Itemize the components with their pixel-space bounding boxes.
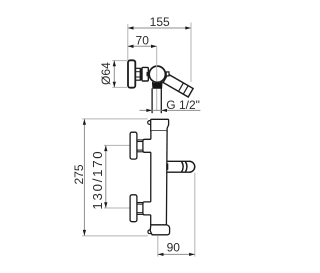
top cap — [151, 119, 169, 131]
handle knob circle — [149, 66, 165, 82]
dimension 90 line — [158, 253, 195, 255]
column left edge — [150, 131, 152, 225]
dimension 275 line — [83, 119, 85, 236]
outlet pipe — [152, 88, 161, 113]
dimension 130/170 arrows — [104, 145, 107, 208]
extension line bottom of body (275 dim) — [82, 235, 148, 237]
dimension G 1/2 line — [140, 109, 201, 111]
bottom cap top line — [151, 224, 167, 226]
dimension G 1/2 arrows — [146, 109, 167, 112]
dimension 275 arrows — [83, 119, 86, 236]
spout ridge arcs — [182, 161, 195, 172]
dimension 70 line — [128, 45, 157, 47]
hose outlet wedge (black) — [152, 81, 163, 89]
bottom handle knob — [130, 195, 137, 222]
spout root bar — [166, 163, 168, 169]
top handle knob — [130, 132, 137, 159]
extension line bottom handle (130/170 dim) — [104, 207, 130, 209]
spout body — [167, 161, 190, 172]
svg-text:70: 70 — [136, 33, 150, 47]
escutcheon (wall flange, edge view) — [128, 60, 135, 87]
extension line top of body (275 dim) — [82, 118, 148, 120]
bottom cap — [150, 225, 169, 235]
svg-text:130/170: 130/170 — [90, 150, 105, 210]
extension line top handle (130/170 dim) — [104, 144, 130, 146]
mounting nut — [136, 68, 141, 80]
svg-text:Ø64: Ø64 — [99, 62, 113, 85]
top cap bottom line — [151, 130, 167, 132]
column right edge — [165, 131, 168, 225]
lever handle — [163, 74, 193, 97]
dimension Ø64 arrows — [113, 61, 116, 88]
svg-text:90: 90 — [167, 241, 181, 255]
bottom handle stem — [137, 203, 143, 215]
bottom cap button bump — [148, 230, 152, 234]
extension line right of 90 dim (spout end) — [194, 173, 196, 257]
lever hub — [166, 72, 169, 76]
svg-text:G 1/2": G 1/2" — [166, 98, 200, 112]
column body fill — [151, 131, 167, 225]
dimension 90 arrows — [158, 253, 195, 256]
nut collar bar — [140, 68, 142, 80]
extension line left of 155/70 — [127, 24, 129, 60]
extension line center of handle (70 dim) — [156, 46, 158, 111]
nut facet lines — [136, 72, 141, 77]
dimension Ø64 line — [113, 61, 115, 88]
extension line left of 90 dim — [157, 236, 159, 257]
top handle base — [143, 139, 151, 152]
extension line right of 155 — [190, 23, 192, 83]
valve body (side) — [142, 67, 148, 81]
body-knob joint — [147, 72, 149, 76]
dimension 130/170 line — [105, 145, 107, 208]
dimension Ø64 extension lines — [112, 61, 127, 88]
top handle stem — [137, 140, 143, 152]
bottom handle base — [143, 202, 151, 215]
dimension 155 arrows — [128, 26, 191, 29]
dimension 155 line — [128, 27, 191, 29]
svg-text:155: 155 — [150, 15, 170, 29]
svg-text:275: 275 — [72, 164, 86, 184]
dimension 70 arrows — [128, 45, 157, 48]
top cap button bump — [148, 121, 152, 125]
